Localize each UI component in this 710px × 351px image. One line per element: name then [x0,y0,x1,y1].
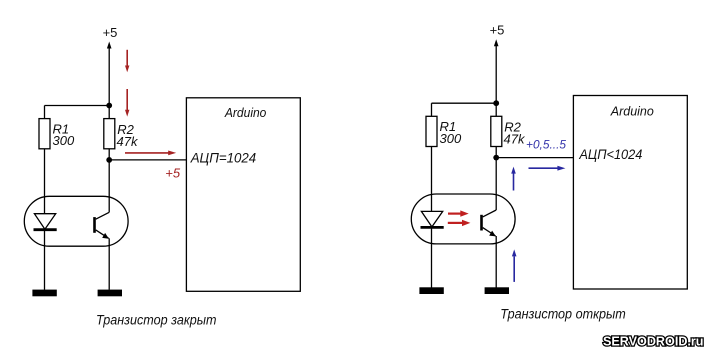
svg-text:АЦП<1024: АЦП<1024 [578,147,642,162]
svg-text:АЦП=1024: АЦП=1024 [190,151,256,166]
svg-text:Транзистор закрыт: Транзистор закрыт [96,312,217,327]
svg-text:SERVODROID.ru: SERVODROID.ru [603,334,704,348]
svg-text:+0,5...5: +0,5...5 [526,138,566,152]
svg-text:Arduino: Arduino [224,106,267,120]
svg-text:Arduino: Arduino [610,104,654,118]
svg-text:Транзистор открыт: Транзистор открыт [500,306,626,321]
svg-text:+5: +5 [165,165,181,180]
